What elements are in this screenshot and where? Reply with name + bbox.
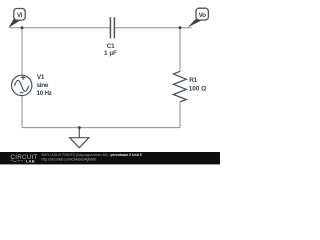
wire top-left segment [9,27,110,29]
svg-text:LAB: LAB [26,159,35,164]
svg-text:V1: V1 [37,74,45,81]
node flag Vi [9,9,26,28]
wire top-right segment [114,27,191,29]
node flag Vo [188,8,209,27]
footer CircuitLab logo [11,154,38,164]
resistor R1 [174,71,187,101]
svg-text:BATU AGUS RIANTO (bayuagusrian: BATU AGUS RIANTO (bayuagusrianto.48) : p… [42,153,142,157]
svg-text:Vi: Vi [17,12,23,19]
capacitor C1 [110,17,114,38]
junction top-right node Vo [179,26,182,29]
svg-text:sine: sine [37,82,49,89]
svg-text:10 Hz: 10 Hz [37,90,52,97]
junction ground node [78,126,81,129]
wire bottom segment [22,127,180,129]
voltage source V1 [12,75,32,96]
wire right vertical upper segment [179,28,181,72]
svg-text:R1: R1 [189,77,197,84]
wire right vertical lower segment [179,102,181,128]
ground [70,128,89,148]
svg-text:Vo: Vo [199,12,206,19]
wire left vertical upper segment [21,28,23,75]
svg-text:http://circuitlab.com/c34a9a24: http://circuitlab.com/c34a9a24g6666 [42,158,97,162]
wire left vertical lower segment [21,96,23,128]
svg-text:100 Ω: 100 Ω [189,85,207,92]
footer watermark bar [0,152,220,164]
junction top-left node Vi [21,26,24,29]
svg-text:1 µF: 1 µF [104,50,117,57]
